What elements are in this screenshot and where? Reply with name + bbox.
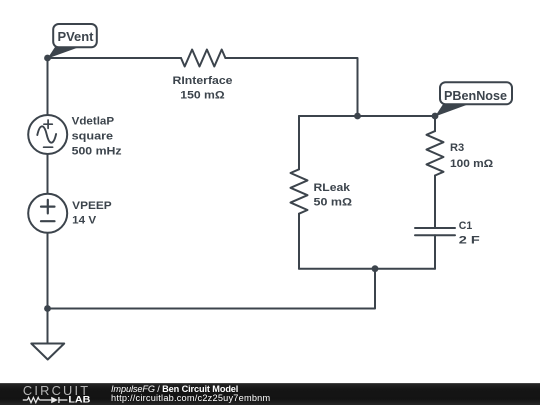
svg-text:RLeak: RLeak [314,182,352,194]
wire from RInterface to top-right corner down to node PBenNose rail [225,58,357,116]
resistor R3 zigzag [427,131,444,175]
wire RLeak bottom to bottom rail [298,214,300,269]
resistor RInterface zigzag [181,50,225,67]
svg-text:square: square [72,131,114,143]
wire left rail node PVent down to VdetlaP [47,58,49,115]
resistor RLeak zigzag [291,169,308,213]
svg-text:RInterface: RInterface [173,75,233,87]
svg-text:50 mΩ: 50 mΩ [314,197,353,209]
wire R3 bottom to capacitor C1 [434,176,436,229]
footer [0,383,540,405]
voltage source V1 VdetlaP circle [28,115,67,154]
node label PVent [48,24,97,59]
wire PBenNose node down to R3 [434,116,436,131]
wire VPEEP bottom down to ground [47,233,49,344]
footer text [111,385,270,403]
svg-text:VdetlaP: VdetlaP [72,115,115,127]
wire horizontal rail between RLeak branch and PBenNose node [299,115,435,117]
ground [31,344,64,360]
svg-text:14 V: 14 V [72,214,97,226]
junction dot bottom rail [372,265,379,272]
svg-text:100 mΩ: 100 mΩ [450,158,494,170]
junction dot top rail [354,113,361,120]
wire between VdetlaP and VPEEP [47,154,49,194]
node label PBenNose [435,82,512,116]
svg-text:R3: R3 [450,142,464,154]
wire left branch down to RLeak [298,116,300,169]
svg-text:PBenNose: PBenNose [444,89,507,103]
junction dot node PVent [44,55,51,62]
footer circuitlab logo [0,382,110,405]
svg-text:500 mHz: 500 mHz [72,146,123,158]
wire bottom rail of parallel network [299,268,435,270]
svg-text:150 mΩ: 150 mΩ [180,89,225,101]
svg-text:PVent: PVent [58,30,95,44]
junction dot node PBenNose [432,113,439,120]
svg-text:VPEEP: VPEEP [72,200,112,212]
wire top from node PVent to RInterface [48,57,182,59]
wire C1 bottom to bottom rail [434,235,436,269]
svg-text:2 F: 2 F [459,235,481,247]
voltage source VPEEP circle [28,194,67,233]
svg-text:LAB: LAB [68,395,90,405]
wire from bottom-rail junction down and left to ground rail [48,269,376,309]
junction dot left rail [44,305,51,312]
capacitor C1 plates [415,228,455,235]
svg-text:C1: C1 [459,220,472,232]
